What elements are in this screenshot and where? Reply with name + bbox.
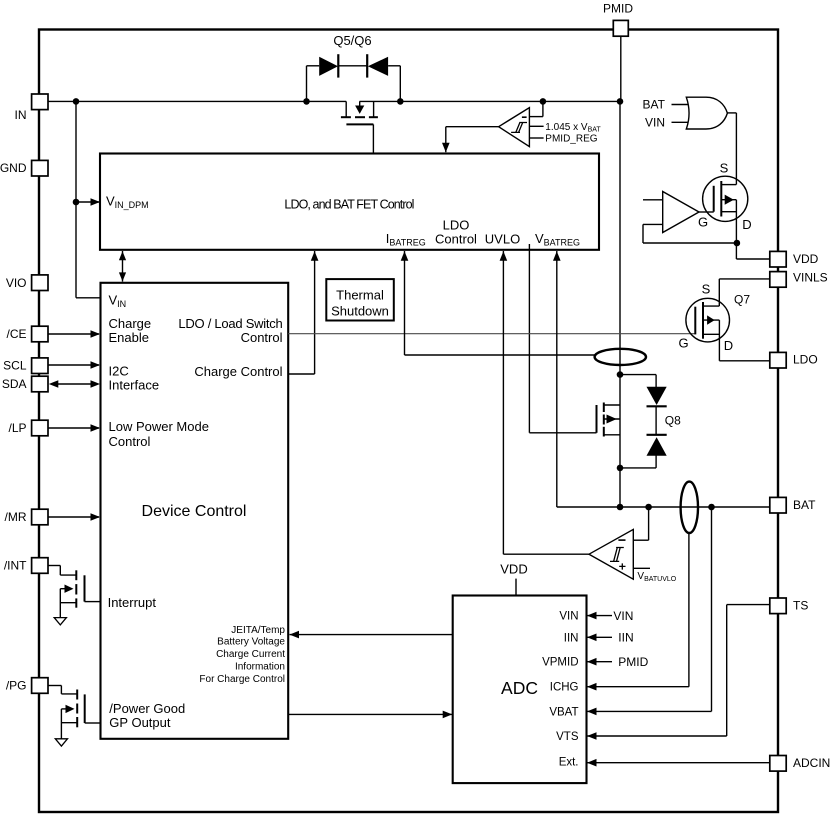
svg-text:Device Control: Device Control bbox=[142, 503, 247, 520]
svg-text:IIN: IIN bbox=[618, 631, 633, 645]
svg-text:SDA: SDA bbox=[2, 377, 27, 391]
svg-text:SCL: SCL bbox=[3, 359, 27, 373]
svg-text:Thermal: Thermal bbox=[336, 288, 384, 303]
svg-text:BAT: BAT bbox=[643, 98, 666, 112]
svg-text:VIO: VIO bbox=[6, 276, 27, 290]
svg-text:/MR: /MR bbox=[5, 510, 27, 524]
svg-text:Shutdown: Shutdown bbox=[331, 304, 389, 319]
svg-text:Q7: Q7 bbox=[734, 293, 750, 307]
svg-text:G: G bbox=[698, 215, 708, 230]
svg-text:IN: IN bbox=[15, 108, 27, 122]
svg-text:JEITA/Temp: JEITA/Temp bbox=[231, 625, 285, 636]
svg-text:VPMID: VPMID bbox=[542, 657, 578, 669]
svg-text:/CE: /CE bbox=[6, 327, 26, 341]
svg-text:GP Output: GP Output bbox=[109, 715, 171, 730]
svg-text:Information: Information bbox=[235, 662, 285, 673]
svg-text:GND: GND bbox=[0, 161, 27, 175]
svg-text:Control: Control bbox=[109, 434, 151, 449]
svg-text:For Charge Control: For Charge Control bbox=[199, 674, 285, 685]
svg-text:Q5/Q6: Q5/Q6 bbox=[333, 33, 371, 48]
svg-text:VDD: VDD bbox=[793, 252, 819, 266]
svg-text:VINLS: VINLS bbox=[793, 271, 828, 285]
svg-text:G: G bbox=[678, 336, 688, 351]
svg-text:I2C: I2C bbox=[109, 364, 129, 379]
svg-text:PMID: PMID bbox=[603, 2, 633, 16]
svg-text:Ext.: Ext. bbox=[559, 757, 579, 769]
svg-text:Charge Control: Charge Control bbox=[194, 364, 282, 379]
svg-text:TS: TS bbox=[793, 599, 808, 613]
svg-text:Charge Current: Charge Current bbox=[216, 649, 285, 660]
svg-text:/INT: /INT bbox=[4, 559, 27, 573]
svg-text:VIN: VIN bbox=[559, 611, 578, 623]
svg-text:PMID: PMID bbox=[618, 655, 648, 669]
svg-text:VIN: VIN bbox=[613, 609, 633, 623]
svg-text:Control: Control bbox=[241, 330, 283, 345]
svg-text:Control: Control bbox=[435, 232, 477, 247]
svg-text:IIN: IIN bbox=[564, 632, 579, 644]
svg-text:S: S bbox=[702, 282, 711, 297]
svg-text:/LP: /LP bbox=[8, 421, 26, 435]
svg-text:Interrupt: Interrupt bbox=[108, 595, 157, 610]
svg-text:UVLO: UVLO bbox=[485, 232, 520, 247]
svg-text:LDO, and BAT FET Control: LDO, and BAT FET Control bbox=[284, 197, 413, 211]
svg-text:ICHG: ICHG bbox=[550, 682, 579, 694]
svg-text:ADCIN: ADCIN bbox=[793, 756, 830, 770]
svg-text:VBAT: VBAT bbox=[549, 706, 578, 718]
svg-text:Charge: Charge bbox=[109, 316, 152, 331]
svg-text:LDO: LDO bbox=[443, 218, 470, 233]
svg-text:S: S bbox=[720, 161, 729, 176]
svg-text:Q8: Q8 bbox=[665, 414, 681, 428]
svg-text:VIN: VIN bbox=[645, 116, 665, 130]
svg-text:VTS: VTS bbox=[556, 731, 579, 743]
svg-text:Interface: Interface bbox=[109, 377, 160, 392]
svg-text:Low Power Mode: Low Power Mode bbox=[109, 419, 209, 434]
svg-text:D: D bbox=[724, 338, 733, 353]
svg-text:D: D bbox=[742, 217, 751, 232]
svg-text:PMID_REG: PMID_REG bbox=[545, 134, 597, 145]
svg-text:/Power Good: /Power Good bbox=[109, 701, 185, 716]
svg-text:Battery Voltage: Battery Voltage bbox=[217, 637, 285, 648]
svg-text:LDO: LDO bbox=[793, 353, 818, 367]
svg-text:BAT: BAT bbox=[793, 498, 816, 512]
svg-text:LDO / Load Switch: LDO / Load Switch bbox=[178, 316, 282, 331]
svg-text:Enable: Enable bbox=[109, 330, 149, 345]
svg-text:VDD: VDD bbox=[500, 561, 527, 576]
svg-text:/PG: /PG bbox=[6, 679, 27, 693]
svg-text:ADC: ADC bbox=[501, 678, 538, 698]
